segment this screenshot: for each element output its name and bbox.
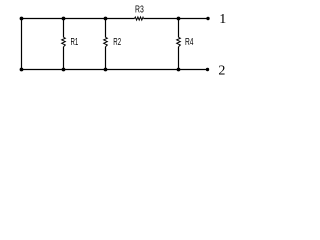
wire bottom rail [22, 69, 208, 71]
resistor R4 zigzag [177, 37, 181, 46]
resistor R1 zigzag [62, 37, 66, 46]
node junction dot top-left corner [20, 17, 24, 21]
terminal dot node 2 [206, 68, 209, 71]
node junction dot R1 bottom [62, 68, 66, 72]
node junction dot bottom-left corner [20, 68, 24, 72]
node junction dot R4 top [177, 17, 181, 21]
node junction dot R2 bottom [104, 68, 108, 72]
resistor R2 zigzag [104, 37, 108, 46]
node junction dot R2 top [104, 17, 108, 21]
wire top rail left segment (node 1 rail) [22, 18, 135, 20]
wire R2 bottom lead [105, 47, 107, 70]
wire R4 top lead [178, 19, 180, 38]
terminal dot node 1 [206, 17, 209, 20]
svg-text:R3: R3 [135, 5, 144, 16]
wire R2 top lead [105, 19, 107, 38]
resistor R3 zigzag [135, 17, 144, 20]
wire R1 bottom lead [63, 47, 65, 70]
node junction dot R1 top [62, 17, 66, 21]
wire R4 bottom lead [178, 47, 180, 70]
svg-text:R4: R4 [185, 37, 194, 48]
node junction dot R4 bottom [177, 68, 181, 72]
wire left vertical rail [21, 19, 23, 70]
svg-text:2: 2 [218, 63, 225, 78]
wire top rail right segment to terminal 1 [144, 18, 209, 20]
wire R1 top lead [63, 19, 65, 38]
svg-text:R2: R2 [113, 37, 121, 48]
svg-text:1: 1 [219, 12, 226, 27]
svg-text:R1: R1 [71, 37, 79, 48]
